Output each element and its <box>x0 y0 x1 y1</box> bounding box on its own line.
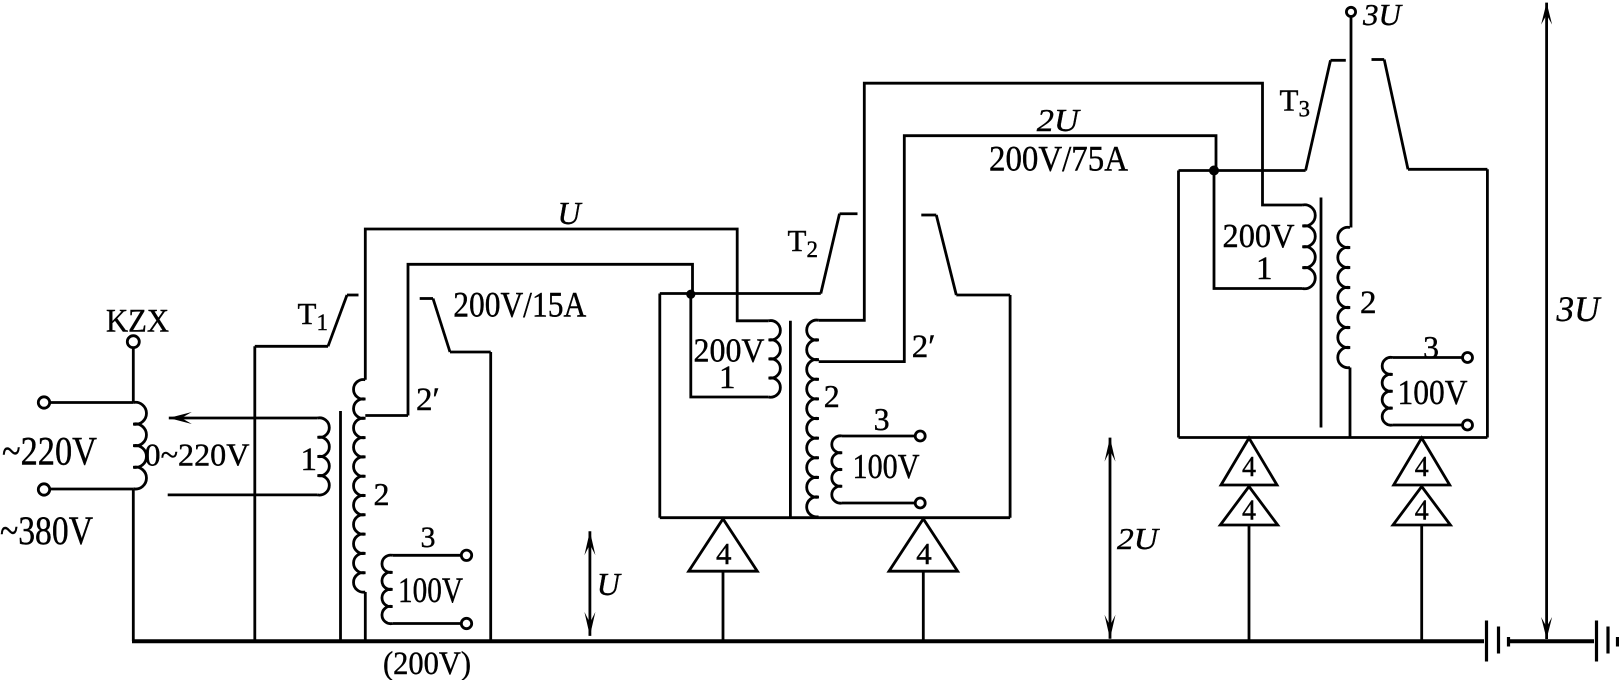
svg-text:2U: 2U <box>1037 102 1081 138</box>
svg-text:4: 4 <box>716 536 732 571</box>
svg-text:3: 3 <box>1423 329 1439 365</box>
svg-text:3: 3 <box>874 401 890 437</box>
svg-text:200V: 200V <box>1223 218 1295 255</box>
svg-text:2U: 2U <box>1117 521 1161 556</box>
svg-text:100V: 100V <box>853 447 920 486</box>
svg-text:1: 1 <box>1256 251 1273 287</box>
svg-text:2′: 2′ <box>912 329 936 365</box>
svg-text:1: 1 <box>719 360 736 396</box>
svg-text:~220V: ~220V <box>2 429 97 474</box>
svg-text:2: 2 <box>374 476 390 512</box>
svg-text:2: 2 <box>824 378 840 414</box>
svg-text:200V/15A: 200V/15A <box>453 285 586 325</box>
svg-text:U: U <box>558 195 583 231</box>
svg-text:100V: 100V <box>1398 373 1468 412</box>
svg-text:3U: 3U <box>1362 0 1404 32</box>
svg-text:200V/75A: 200V/75A <box>989 139 1128 179</box>
svg-text:3: 3 <box>421 521 436 554</box>
svg-text:0~220V: 0~220V <box>145 437 250 473</box>
svg-text:KZX: KZX <box>106 304 169 340</box>
svg-text:4: 4 <box>1415 496 1429 527</box>
svg-text:(200V): (200V) <box>383 646 471 680</box>
svg-text:U: U <box>597 566 622 602</box>
svg-text:3U: 3U <box>1556 289 1602 329</box>
svg-text:1: 1 <box>301 442 318 478</box>
svg-text:2: 2 <box>1360 285 1377 321</box>
svg-text:4: 4 <box>1415 452 1429 483</box>
svg-text:4: 4 <box>916 536 932 571</box>
svg-text:~380V: ~380V <box>0 508 93 553</box>
svg-text:2′: 2′ <box>416 382 440 418</box>
svg-text:4: 4 <box>1242 452 1256 483</box>
svg-text:100V: 100V <box>398 570 463 610</box>
svg-text:4: 4 <box>1242 496 1256 527</box>
